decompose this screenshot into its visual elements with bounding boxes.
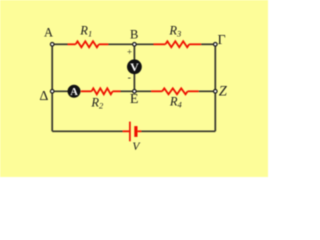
svg-text:B: B bbox=[130, 28, 138, 42]
svg-text:Γ: Γ bbox=[217, 33, 225, 48]
svg-text:Z: Z bbox=[219, 84, 228, 100]
resistor R1 bbox=[68, 41, 109, 47]
node Z bbox=[214, 90, 218, 94]
node A bbox=[50, 43, 54, 47]
wire: R3 right to Gamma bbox=[201, 43, 215, 45]
wire: middle vertical B to E bbox=[133, 44, 135, 91]
wire: Delta to ammeter bbox=[52, 90, 68, 92]
resistor R2 bbox=[81, 88, 121, 94]
svg-text:A: A bbox=[44, 26, 53, 40]
svg-text:-: - bbox=[128, 72, 131, 83]
node Delta bbox=[50, 90, 54, 94]
node E bbox=[133, 90, 137, 94]
wire: bottom right segment from battery bbox=[141, 130, 215, 132]
node Gamma bbox=[214, 43, 218, 47]
wire: R1 right to B and B to R3 left bbox=[108, 43, 153, 45]
node B bbox=[133, 43, 137, 47]
wire: right vertical Gamma to bottom-right corner bbox=[214, 44, 216, 131]
svg-text:+: + bbox=[127, 47, 132, 57]
resistor R3 bbox=[153, 41, 201, 47]
svg-text:E: E bbox=[130, 92, 139, 107]
wire: left vertical A to bottom-left corner bbox=[51, 44, 53, 131]
svg-text:Δ: Δ bbox=[39, 89, 48, 104]
voltmeter U: V bbox=[127, 59, 142, 74]
wire: bottom left segment to battery bbox=[52, 130, 122, 132]
svg-text:V: V bbox=[130, 60, 139, 74]
resistor R4 bbox=[151, 88, 199, 94]
ammeter U: A bbox=[68, 85, 81, 98]
svg-text:A: A bbox=[70, 87, 78, 98]
wire: top A to R1 left lead bbox=[52, 43, 67, 45]
wire: R4 right to Z bbox=[199, 90, 216, 92]
battery V: red leads and plates bbox=[123, 122, 142, 142]
wire: R2 right to E and E to R4 left lead bbox=[121, 90, 152, 92]
